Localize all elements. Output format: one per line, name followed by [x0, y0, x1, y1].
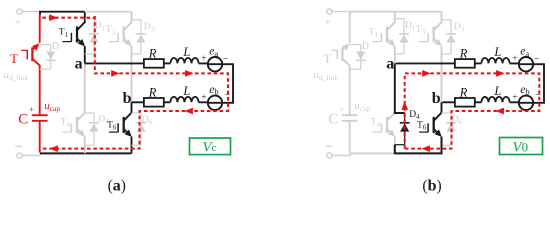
- wire top rail corner: [350, 12, 395, 15]
- wire node a down to D4: [395, 63, 405, 113]
- annotation box Vc: [190, 138, 231, 155]
- diode D1: [85, 19, 106, 54]
- wire bottom rail: [350, 152, 442, 154]
- DC+ terminal: [17, 9, 22, 14]
- DC- terminal: [17, 153, 22, 158]
- diode D1: [395, 19, 416, 54]
- transistor T: [324, 14, 350, 115]
- current arrow phase a 1: [422, 70, 430, 77]
- minus sign DC: [325, 145, 332, 147]
- svg-text:T: T: [324, 51, 332, 66]
- transistor T3: [416, 12, 442, 103]
- svg-text:C: C: [328, 111, 338, 127]
- svg-text:ea: ea: [520, 46, 529, 59]
- wire ea to right link: [533, 64, 544, 103]
- transistor T3: [106, 12, 132, 103]
- annotation box V0: [500, 138, 543, 155]
- wire top rail corner: [40, 12, 85, 15]
- source eb: [208, 96, 222, 110]
- transistor T4: [61, 63, 85, 153]
- wire dashed current path loop: [41, 16, 228, 149]
- wire R to L phase b: [164, 101, 171, 103]
- transistor T: [10, 14, 40, 115]
- wire terminal+ to rail: [22, 11, 39, 13]
- svg-text:+: +: [201, 54, 206, 64]
- resistor R phase a: [144, 59, 164, 68]
- DC- terminal: [327, 153, 332, 158]
- inductor L phase a: [170, 58, 198, 63]
- current arrow phase a 2: [185, 70, 193, 77]
- wire dashed freewheel loop: [405, 73, 540, 148]
- svg-text:+: +: [15, 17, 21, 29]
- svg-text:+: +: [512, 93, 517, 103]
- svg-text:R: R: [148, 85, 157, 99]
- wire dashed current path top run: [42, 17, 94, 19]
- svg-text:eb: eb: [520, 84, 529, 97]
- DC+ terminal: [327, 9, 332, 14]
- wire node b to R: [443, 101, 455, 103]
- svg-text:ea: ea: [209, 46, 218, 59]
- svg-text:(a): (a): [108, 178, 126, 195]
- resistor R phase b: [455, 98, 475, 107]
- transistor T6: [107, 102, 132, 153]
- current arrow phase b: [185, 108, 193, 115]
- diode D3: [132, 20, 155, 54]
- wire terminal- to rail: [22, 153, 40, 155]
- wire R to L phase a: [475, 62, 482, 64]
- svg-text:D: D: [52, 41, 59, 52]
- wire L to ea: [510, 62, 520, 65]
- current arrow bottom run: [422, 145, 430, 152]
- wire R to L phase b: [475, 101, 482, 103]
- svg-text:+: +: [512, 54, 517, 64]
- transistor T1: [369, 12, 395, 64]
- current arrow phase b: [496, 108, 504, 115]
- svg-text:a: a: [75, 55, 83, 72]
- source ea: [519, 57, 533, 71]
- svg-text:+: +: [29, 105, 34, 115]
- wire L to ea: [199, 62, 209, 65]
- current arrow top run: [49, 14, 57, 21]
- inductor L phase a: [481, 58, 509, 63]
- source ea: [208, 57, 222, 71]
- capacitor C: [32, 115, 48, 152]
- svg-text:(b): (b): [422, 178, 441, 195]
- wire node a to R: [85, 62, 144, 64]
- diode D6: [442, 113, 463, 145]
- svg-text:+: +: [325, 17, 331, 29]
- current arrow bottom run: [50, 145, 58, 152]
- diode D4: [85, 113, 109, 145]
- resistor R phase a: [455, 59, 475, 68]
- transistor T1: [59, 12, 85, 64]
- diode D6: [132, 113, 153, 145]
- svg-text:L: L: [182, 45, 190, 59]
- svg-text:R: R: [148, 46, 157, 60]
- inductor L phase b: [170, 97, 198, 102]
- svg-text:L: L: [493, 84, 501, 98]
- diode D: [350, 41, 369, 69]
- svg-text:−: −: [223, 54, 229, 65]
- diode D3: [442, 20, 465, 54]
- inductor L phase b: [481, 97, 509, 102]
- current arrow phase a 1: [111, 70, 119, 77]
- resistor R phase b: [144, 98, 164, 107]
- wire top rail legA-legB: [85, 11, 132, 13]
- wire terminal+ to rail: [332, 11, 349, 13]
- wire ea to right link: [222, 64, 233, 103]
- transistor T6: [417, 102, 442, 153]
- svg-text:a: a: [386, 55, 394, 72]
- wire terminal- to rail: [332, 153, 350, 155]
- svg-text:b: b: [123, 90, 132, 107]
- wire D4 joint to bottom: [395, 137, 442, 153]
- source eb: [519, 96, 533, 110]
- svg-text:−: −: [534, 54, 540, 65]
- svg-text:+: +: [201, 93, 206, 103]
- transistor T4: [371, 63, 395, 153]
- svg-text:L: L: [493, 45, 501, 59]
- svg-text:+: +: [339, 105, 344, 115]
- current arrow up through D4: [401, 102, 408, 110]
- wire node b to R: [132, 101, 144, 103]
- current arrow phase a 2: [496, 70, 504, 77]
- diode D4: [395, 110, 420, 145]
- wire node a to R: [396, 62, 455, 64]
- svg-text:V0: V0: [512, 140, 528, 156]
- wire bottom rail: [40, 152, 132, 154]
- svg-text:R: R: [459, 85, 468, 99]
- svg-text:eb: eb: [209, 84, 218, 97]
- svg-text:b: b: [432, 90, 441, 107]
- wire L to eb: [510, 101, 520, 104]
- svg-text:L: L: [182, 84, 190, 98]
- diode D: [40, 41, 59, 69]
- svg-text:R: R: [459, 46, 468, 60]
- wire top rail legA-legB: [395, 11, 442, 13]
- minus sign DC: [15, 145, 22, 147]
- capacitor C: [342, 115, 358, 152]
- svg-text:C: C: [18, 111, 28, 127]
- wire R to L phase a: [164, 62, 171, 64]
- svg-text:T: T: [10, 51, 18, 66]
- svg-text:D: D: [362, 41, 369, 52]
- wire L to eb: [199, 101, 209, 104]
